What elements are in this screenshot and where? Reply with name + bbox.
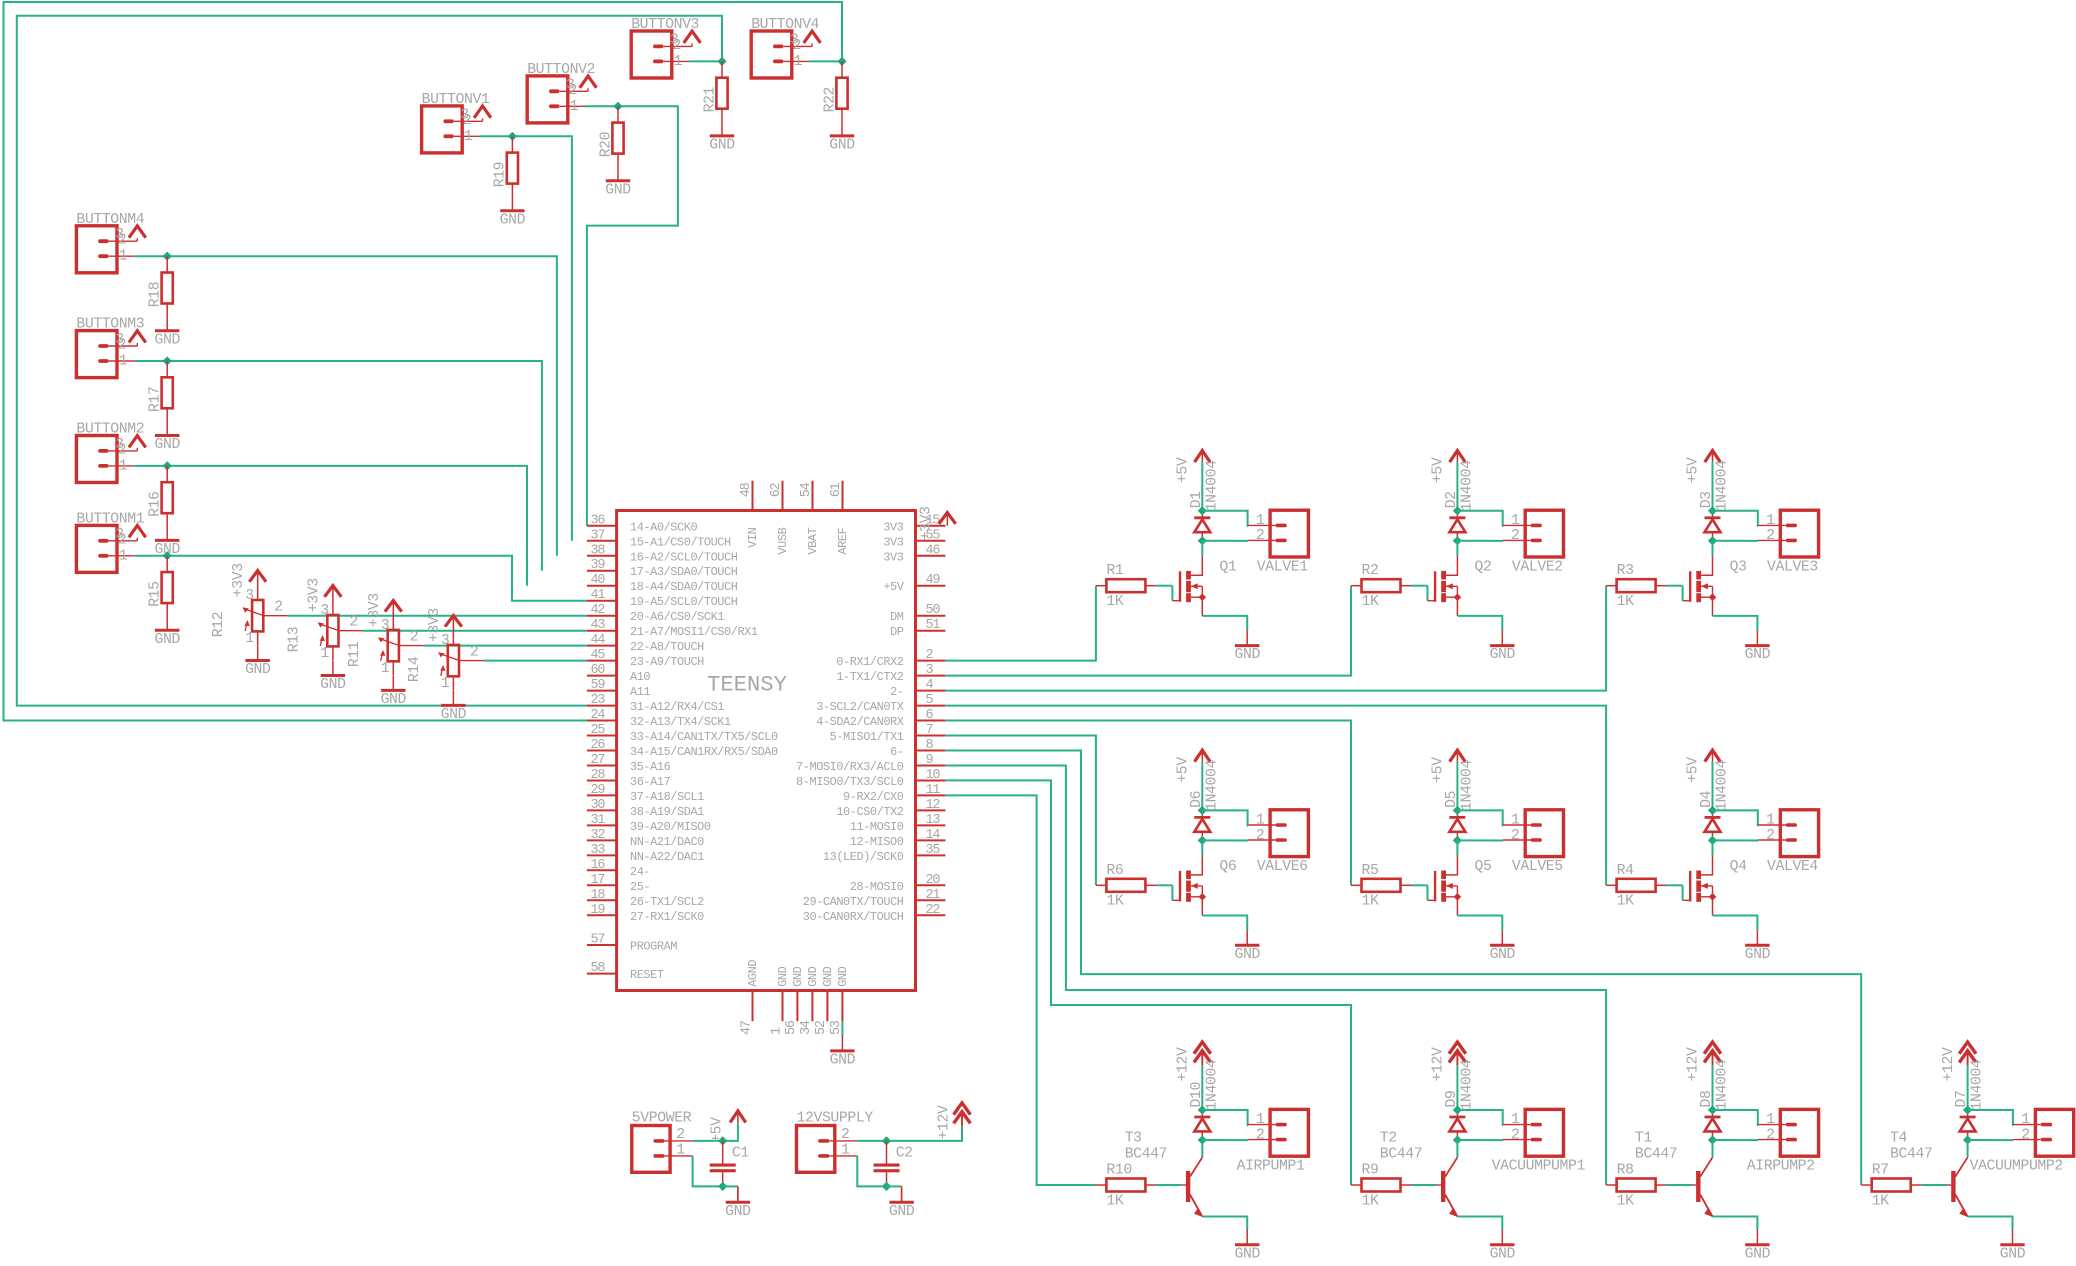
ground below R15	[154, 615, 180, 648]
svg-text:9: 9	[926, 753, 934, 768]
teensy left pin 43 21-A7/MOSI1/CS0/RX1	[587, 618, 758, 639]
svg-text:2-: 2-	[890, 685, 903, 699]
svg-text:BUTTONV4: BUTTONV4	[751, 17, 819, 33]
connector VALVE4	[1758, 810, 1819, 875]
svg-text:5VPOWER: 5VPOWER	[632, 1111, 692, 1127]
ground below T4	[2000, 1230, 2026, 1263]
wire C1 ground stub	[723, 1185, 738, 1187]
svg-text:1K: 1K	[1617, 594, 1634, 610]
+5V supply arrow for VALVE4	[1686, 750, 1721, 810]
teensy bottom pin 34 GND	[799, 966, 820, 1035]
svg-text:GND: GND	[776, 966, 790, 986]
svg-text:R10: R10	[1106, 1163, 1131, 1179]
connector AIRPUMP1	[1237, 1109, 1309, 1174]
svg-text:BC447: BC447	[1125, 1147, 1167, 1163]
svg-text:VALVE1: VALVE1	[1257, 559, 1308, 575]
svg-text:58: 58	[591, 961, 606, 976]
svg-text:1: 1	[769, 1027, 784, 1035]
+3V3 supply arrow above R14	[445, 616, 462, 627]
teensy right pin 22 30-CAN0RX/TOUCH	[803, 903, 946, 924]
wire D1 to VALVE1 pin 2	[1202, 540, 1248, 542]
svg-text:1K: 1K	[1106, 894, 1123, 910]
junction node BUTTONM1	[163, 551, 172, 560]
svg-text:26-TX1/SCL2: 26-TX1/SCL2	[630, 895, 704, 909]
svg-text:11: 11	[926, 783, 941, 798]
svg-text:R3: R3	[1617, 563, 1634, 579]
diode D2 1N4004	[1444, 460, 1476, 541]
wire R8 to base T1	[1666, 1184, 1679, 1186]
wire net pin 7 to R6	[945, 736, 1096, 886]
svg-text:62: 62	[769, 482, 784, 497]
ground below Q5	[1490, 930, 1516, 963]
svg-text:NN-A21/DAC0: NN-A21/DAC0	[630, 835, 704, 849]
teensy left pin 31 39-A20/MISO0	[587, 813, 711, 834]
svg-text:31-A12/RX4/CS1: 31-A12/RX4/CS1	[630, 700, 724, 714]
svg-text:36-A17: 36-A17	[630, 775, 671, 789]
svg-text:1N4004: 1N4004	[1459, 1059, 1475, 1110]
+3V3 supply arrow above R12	[249, 571, 266, 582]
wire D10 to AIRPUMP1 pin 2	[1202, 1139, 1248, 1141]
svg-text:1N4004: 1N4004	[1204, 1059, 1220, 1110]
svg-text:35: 35	[926, 843, 941, 858]
connector VACUUMPUMP1	[1492, 1109, 1586, 1174]
resistor R17	[148, 361, 173, 421]
svg-text:RESET: RESET	[630, 968, 664, 982]
svg-text:D6: D6	[1189, 791, 1205, 808]
svg-text:+12V: +12V	[1176, 1047, 1192, 1081]
junction node anode D8	[1708, 1105, 1717, 1114]
svg-text:Q1: Q1	[1219, 560, 1236, 576]
teensy bottom pin 47 AGND	[739, 960, 760, 1035]
teensy right pin 5 3-SCL2/CAN0TX	[816, 693, 945, 714]
resistor R20	[598, 106, 623, 166]
diode D9 1N4004	[1444, 1059, 1476, 1140]
diode D5 1N4004	[1444, 760, 1476, 841]
wire 12VSUPPLY pin 2 to +12V	[857, 1126, 962, 1141]
teensy left pin 44 22-A8/TOUCH	[587, 633, 704, 654]
svg-text:PROGRAM: PROGRAM	[630, 940, 677, 954]
svg-text:39: 39	[591, 558, 606, 573]
svg-text:29-CAN0TX/TOUCH: 29-CAN0TX/TOUCH	[803, 895, 904, 909]
connector VALVE2	[1503, 510, 1564, 575]
n-channel mosfet Q4	[1680, 855, 1758, 930]
wire D2 to VALVE2 pin 2	[1457, 540, 1503, 542]
svg-text:D10: D10	[1189, 1082, 1205, 1107]
svg-text:+12V: +12V	[1431, 1047, 1447, 1081]
svg-text:TEENSY: TEENSY	[707, 673, 787, 698]
+5V supply arrow for VALVE2	[1431, 451, 1466, 511]
ground below R13	[320, 661, 346, 694]
svg-text:44: 44	[591, 633, 606, 648]
svg-text:BUTTONV3: BUTTONV3	[631, 17, 699, 33]
teensy top pin 48 VIN	[739, 481, 760, 548]
+12V supply arrow for AIRPUMP2	[1686, 1042, 1721, 1110]
wire D7 to VACUUMPUMP2 pin 1	[1968, 1110, 2014, 1125]
wire D1 cathode to Q1 drain	[1201, 541, 1203, 556]
pushbutton connector BUTTONV3	[631, 17, 722, 78]
svg-text:DM: DM	[890, 610, 904, 624]
wire D4 to VALVE4 pin 1	[1713, 810, 1759, 825]
wire net BUTTONM2 to pin 40	[167, 466, 527, 586]
svg-text:25-: 25-	[630, 880, 650, 894]
resistor R3 1K	[1606, 563, 1666, 610]
teensy left pin 45 23-A9/TOUCH	[587, 648, 704, 669]
svg-text:34: 34	[799, 1020, 814, 1035]
+3V3 supply arrow above R11	[385, 601, 402, 612]
teensy left pin 18 26-TX1/SCL2	[587, 888, 704, 909]
wire net BUTTONM1 to pin 41	[167, 556, 587, 601]
junction node BUTTONV2	[613, 102, 622, 111]
svg-text:8-MISO0/TX3/SCL0: 8-MISO0/TX3/SCL0	[796, 775, 904, 789]
+12V supply arrow for VACUUMPUMP1	[1431, 1042, 1466, 1110]
wire D5 to VALVE5 pin 1	[1457, 810, 1503, 825]
teensy left pin 17 25-	[587, 873, 650, 894]
svg-text:30-CAN0RX/TOUCH: 30-CAN0RX/TOUCH	[803, 910, 904, 924]
wire net R13 wiper to pin 43	[363, 630, 587, 632]
connector 5VPOWER	[632, 1111, 693, 1173]
capacitor C1	[710, 1141, 750, 1187]
teensy right pin 13 11-MOSI0	[850, 813, 946, 834]
teensy right pin 6 4-SDA2/CAN0RX	[816, 708, 945, 729]
svg-text:+12V: +12V	[1686, 1047, 1702, 1081]
svg-text:BC447: BC447	[1635, 1147, 1677, 1163]
pushbutton connector BUTTONV1	[422, 92, 513, 153]
svg-text:1N4004: 1N4004	[1715, 760, 1731, 811]
svg-text:VACUUMPUMP1: VACUUMPUMP1	[1492, 1159, 1586, 1175]
svg-text:1N4004: 1N4004	[1715, 1059, 1731, 1110]
svg-text:43: 43	[591, 618, 606, 633]
svg-text:47: 47	[739, 1020, 754, 1035]
teensy right pin 8 6-	[890, 738, 945, 759]
svg-text:AGND: AGND	[746, 960, 760, 987]
svg-text:D1: D1	[1189, 491, 1205, 508]
svg-text:R14: R14	[407, 656, 423, 682]
resistor R10 1K	[1096, 1163, 1156, 1210]
wire net pin 8 to R7	[945, 751, 1861, 1186]
junction node anode D10	[1198, 1105, 1207, 1114]
wire D6 to VALVE6 pin 1	[1202, 810, 1248, 825]
trimmer potentiometer R11	[347, 593, 423, 677]
teensy right pin 15 3V3	[883, 513, 945, 534]
n-channel mosfet Q2	[1424, 556, 1502, 631]
svg-text:23-A9/TOUCH: 23-A9/TOUCH	[630, 655, 704, 669]
teensy left pin 29 37-A18/SCL1	[587, 783, 704, 804]
n-channel mosfet Q3	[1680, 556, 1758, 631]
teensy right pin 4 2-	[890, 678, 945, 699]
svg-text:51: 51	[926, 618, 941, 633]
svg-text:35-A16: 35-A16	[630, 760, 671, 774]
svg-text:R19: R19	[493, 162, 509, 187]
svg-text:30: 30	[591, 798, 606, 813]
ground below R14	[441, 690, 467, 723]
wire D1 to VALVE1 pin 1	[1202, 511, 1248, 526]
svg-text:+5V: +5V	[883, 580, 904, 594]
wire D6 to VALVE6 pin 2	[1202, 839, 1248, 841]
svg-text:20-A6/CS0/SCK1: 20-A6/CS0/SCK1	[630, 610, 724, 624]
svg-text:48: 48	[739, 482, 754, 497]
+3V3 supply arrow at teensy pin 15	[918, 506, 955, 540]
svg-text:+5V: +5V	[709, 1117, 725, 1143]
svg-text:32: 32	[591, 828, 606, 843]
wire net pin 10 to R9	[945, 780, 1351, 1185]
svg-text:8: 8	[926, 738, 934, 753]
svg-text:0-RX1/CRX2: 0-RX1/CRX2	[836, 655, 903, 669]
ground below Q1	[1234, 631, 1260, 664]
diode D1 1N4004	[1189, 460, 1221, 541]
svg-text:R9: R9	[1362, 1163, 1379, 1179]
svg-text:Q3: Q3	[1730, 560, 1747, 576]
junction node cathode D10	[1198, 1135, 1207, 1144]
svg-text:7: 7	[926, 723, 934, 738]
svg-text:R8: R8	[1617, 1163, 1634, 1179]
svg-text:GND: GND	[806, 966, 820, 986]
wire R5 to gate Q5	[1411, 884, 1424, 886]
wire D5 cathode to Q5 drain	[1456, 840, 1458, 855]
pushbutton connector BUTTONM3	[76, 317, 167, 378]
svg-text:DP: DP	[890, 625, 904, 639]
svg-text:D5: D5	[1444, 791, 1460, 808]
svg-text:23: 23	[591, 693, 606, 708]
svg-text:R13: R13	[286, 627, 302, 652]
junction node anode D1	[1198, 506, 1207, 515]
svg-text:D4: D4	[1699, 790, 1715, 807]
svg-text:BUTTONM1: BUTTONM1	[76, 511, 144, 527]
svg-text:VALVE6: VALVE6	[1257, 859, 1308, 875]
teensy right pin 3 1-TX1/CTX2	[836, 663, 945, 684]
teensy left pin 25 33-A14/CAN1TX/TX5/SCL0	[587, 723, 778, 744]
svg-text:AIRPUMP2: AIRPUMP2	[1747, 1159, 1815, 1175]
wire pin 53 to ground	[841, 1021, 843, 1037]
svg-text:42: 42	[591, 603, 606, 618]
teensy left pin 24 32-A13/TX4/SCK1	[587, 708, 731, 729]
svg-text:28: 28	[591, 768, 606, 783]
ground below C2	[889, 1186, 915, 1220]
svg-text:5-MISO1/TX1: 5-MISO1/TX1	[830, 730, 904, 744]
wire D3 to VALVE3 pin 1	[1713, 511, 1759, 526]
svg-text:BUTTONM2: BUTTONM2	[76, 422, 144, 438]
svg-text:21-A7/MOSI1/CS0/RX1: 21-A7/MOSI1/CS0/RX1	[630, 625, 758, 639]
wire net BUTTONV1 to pin 37	[512, 136, 572, 541]
wire net BUTTONV2 to pin 36	[587, 106, 678, 526]
svg-text:BC447: BC447	[1890, 1147, 1932, 1163]
junction node cathode D5	[1453, 836, 1462, 845]
wire R6 to gate Q6	[1156, 884, 1169, 886]
svg-text:19-A5/SCL0/TOUCH: 19-A5/SCL0/TOUCH	[630, 595, 738, 609]
npn transistor T4 BC447	[1890, 1131, 2013, 1231]
svg-text:18: 18	[591, 888, 606, 903]
resistor R8 1K	[1606, 1163, 1666, 1210]
svg-text:3-SCL2/CAN0TX: 3-SCL2/CAN0TX	[816, 700, 904, 714]
svg-text:3: 3	[926, 663, 934, 678]
wire D9 to VACUUMPUMP1 pin 1	[1457, 1110, 1503, 1125]
svg-text:27-RX1/SCK0: 27-RX1/SCK0	[630, 910, 704, 924]
teensy right pin 51 DP	[890, 618, 945, 639]
junction node anode D9	[1453, 1105, 1462, 1114]
svg-text:+12V: +12V	[1941, 1047, 1957, 1081]
svg-text:13: 13	[926, 813, 941, 828]
teensy right pin 46 3V3	[883, 543, 945, 564]
svg-text:R21: R21	[702, 86, 718, 112]
junction node anode D6	[1198, 806, 1207, 815]
capacitor C2	[874, 1141, 913, 1187]
junction node cathode D6	[1198, 836, 1207, 845]
wire net pin 11 to R10	[945, 795, 1096, 1185]
npn transistor T1 BC447	[1635, 1131, 1758, 1231]
svg-text:1K: 1K	[1362, 1193, 1379, 1209]
teensy right pin 9 7-MOSI0/RX3/ACL0	[796, 753, 945, 774]
resistor R1 1K	[1096, 563, 1156, 610]
connector VALVE5	[1503, 810, 1564, 875]
svg-text:C2: C2	[896, 1146, 913, 1162]
junction node anode D5	[1453, 806, 1462, 815]
svg-text:14: 14	[926, 828, 941, 843]
wire net pin 9 to R8	[945, 766, 1606, 1186]
wire D10 cathode to T3 collector	[1201, 1140, 1203, 1157]
svg-text:D7: D7	[1954, 1091, 1970, 1108]
ground below R19	[500, 196, 526, 229]
svg-text:26: 26	[591, 738, 606, 753]
microcontroller U1 TEENSY outline	[617, 511, 916, 991]
svg-text:19: 19	[591, 903, 606, 918]
svg-text:37: 37	[591, 528, 606, 543]
teensy right pin 10 8-MISO0/TX3/SCL0	[796, 768, 945, 789]
resistor R6 1K	[1096, 863, 1156, 910]
svg-text:R16: R16	[148, 491, 164, 516]
svg-text:38-A19/SDA1: 38-A19/SDA1	[630, 805, 704, 819]
resistor R19	[493, 136, 518, 196]
pushbutton connector BUTTONV2	[527, 62, 618, 123]
wire D8 to AIRPUMP2 pin 2	[1713, 1139, 1759, 1141]
wire D4 cathode to Q4 drain	[1712, 840, 1714, 855]
junction node anode D3	[1708, 506, 1717, 515]
svg-text:R7: R7	[1872, 1163, 1889, 1179]
wire D3 to VALVE3 pin 2	[1713, 540, 1759, 542]
svg-text:+3V3: +3V3	[918, 506, 934, 540]
svg-text:20: 20	[926, 873, 941, 888]
+12V supply arrow for AIRPUMP1	[1176, 1042, 1211, 1110]
teensy left pin 41 19-A5/SCL0/TOUCH	[587, 588, 738, 609]
wire D7 cathode to T4 collector	[1967, 1140, 1969, 1157]
wire D9 to VACUUMPUMP1 pin 2	[1457, 1139, 1503, 1141]
svg-text:BUTTONV2: BUTTONV2	[527, 62, 595, 78]
svg-text:5: 5	[926, 693, 934, 708]
junction node 12V at C2	[882, 1136, 891, 1145]
svg-text:BC447: BC447	[1380, 1147, 1422, 1163]
teensy left pin 38 16-A2/SCL0/TOUCH	[587, 543, 738, 564]
resistor R4 1K	[1606, 863, 1666, 910]
resistor R9 1K	[1351, 1163, 1411, 1210]
teensy right pin 12 10-CS0/TX2	[836, 798, 945, 819]
wire net BUTTONV3 to pin 23	[17, 16, 722, 706]
svg-text:4: 4	[926, 678, 934, 693]
svg-text:28-MOSI0: 28-MOSI0	[850, 880, 904, 894]
wire D4 to VALVE4 pin 2	[1713, 839, 1759, 841]
teensy top pin 62 VUSB	[769, 481, 790, 555]
svg-text:R4: R4	[1617, 863, 1634, 879]
svg-text:D8: D8	[1699, 1091, 1715, 1108]
teensy right pin 7 5-MISO1/TX1	[830, 723, 946, 744]
teensy right pin 11 9-RX2/CX0	[843, 783, 945, 804]
svg-text:BUTTONM4: BUTTONM4	[76, 212, 144, 228]
ground below R21	[709, 121, 735, 154]
diode D4 1N4004	[1699, 760, 1731, 841]
wire R2 to gate Q2	[1411, 585, 1424, 587]
svg-text:21: 21	[926, 888, 941, 903]
ground below R11	[381, 675, 407, 708]
svg-text:17-A3/SDA0/TOUCH: 17-A3/SDA0/TOUCH	[630, 565, 738, 579]
svg-text:VUSB: VUSB	[776, 527, 790, 554]
wire D5 to VALVE5 pin 2	[1457, 839, 1503, 841]
svg-text:Q2: Q2	[1475, 560, 1492, 576]
wire 5VPOWER pin 1 to ground	[693, 1156, 723, 1187]
svg-text:VIN: VIN	[746, 527, 760, 547]
junction node 5V at C1	[718, 1136, 727, 1145]
svg-text:33-A14/CAN1TX/TX5/SCL0: 33-A14/CAN1TX/TX5/SCL0	[630, 730, 778, 744]
svg-text:1N4004: 1N4004	[1459, 460, 1475, 511]
ground below R16	[154, 525, 180, 558]
teensy left pin 42 20-A6/CS0/SCK1	[587, 603, 724, 624]
svg-text:Q6: Q6	[1219, 859, 1236, 875]
svg-text:29: 29	[591, 783, 606, 798]
wire net R12 wiper to pin 42	[288, 615, 587, 617]
svg-text:49: 49	[926, 573, 941, 588]
wire net R14 wiper to pin 45	[483, 660, 587, 662]
svg-text:1N4004: 1N4004	[1715, 460, 1731, 511]
svg-text:VALVE4: VALVE4	[1767, 859, 1818, 875]
wire R9 to base T2	[1411, 1184, 1424, 1186]
junction node cathode D8	[1708, 1135, 1717, 1144]
+12V supply arrow at 12VSUPPLY	[937, 1103, 971, 1140]
diode D7 1N4004	[1954, 1059, 1986, 1140]
wire D9 cathode to T2 collector	[1456, 1140, 1458, 1157]
teensy bottom pin 1 GND	[769, 966, 790, 1035]
teensy left pin 39 17-A3/SDA0/TOUCH	[587, 558, 738, 579]
diode D10 1N4004	[1189, 1059, 1221, 1140]
svg-text:33: 33	[591, 843, 606, 858]
wire R7 to base T4	[1921, 1184, 1934, 1186]
diode D6 1N4004	[1189, 760, 1221, 841]
svg-text:2: 2	[926, 648, 934, 663]
teensy left pin 32 NN-A21/DAC0	[587, 828, 704, 849]
trimmer potentiometer R14	[407, 608, 483, 692]
junction node BUTTONM3	[163, 356, 172, 365]
svg-text:46: 46	[926, 543, 941, 558]
svg-text:D9: D9	[1444, 1091, 1460, 1108]
resistor R5 1K	[1351, 863, 1411, 910]
svg-text:50: 50	[926, 603, 941, 618]
teensy right pin 50 DM	[890, 603, 945, 624]
svg-text:1-TX1/CTX2: 1-TX1/CTX2	[836, 670, 903, 684]
teensy left pin 33 NN-A22/DAC1	[587, 843, 704, 864]
npn transistor T3 BC447	[1125, 1131, 1248, 1231]
svg-text:R2: R2	[1362, 563, 1379, 579]
svg-text:T4: T4	[1890, 1131, 1907, 1147]
teensy right pin 49 +5V	[883, 573, 945, 594]
+5V supply arrow for VALVE3	[1686, 451, 1721, 511]
svg-text:22: 22	[926, 903, 941, 918]
diode D3 1N4004	[1699, 460, 1731, 541]
junction node cathode D3	[1708, 536, 1717, 545]
trimmer potentiometer R12	[211, 563, 287, 647]
svg-text:41: 41	[591, 588, 606, 603]
wire net BUTTONM4 to pin 38	[167, 256, 557, 556]
ground below T2	[1490, 1230, 1516, 1263]
diode D8 1N4004	[1699, 1059, 1731, 1140]
svg-text:R18: R18	[148, 282, 164, 307]
teensy bottom pin 53 GND	[829, 966, 850, 1035]
svg-text:11-MOSI0: 11-MOSI0	[850, 820, 904, 834]
teensy pin 57 PROGRAM	[587, 933, 677, 954]
